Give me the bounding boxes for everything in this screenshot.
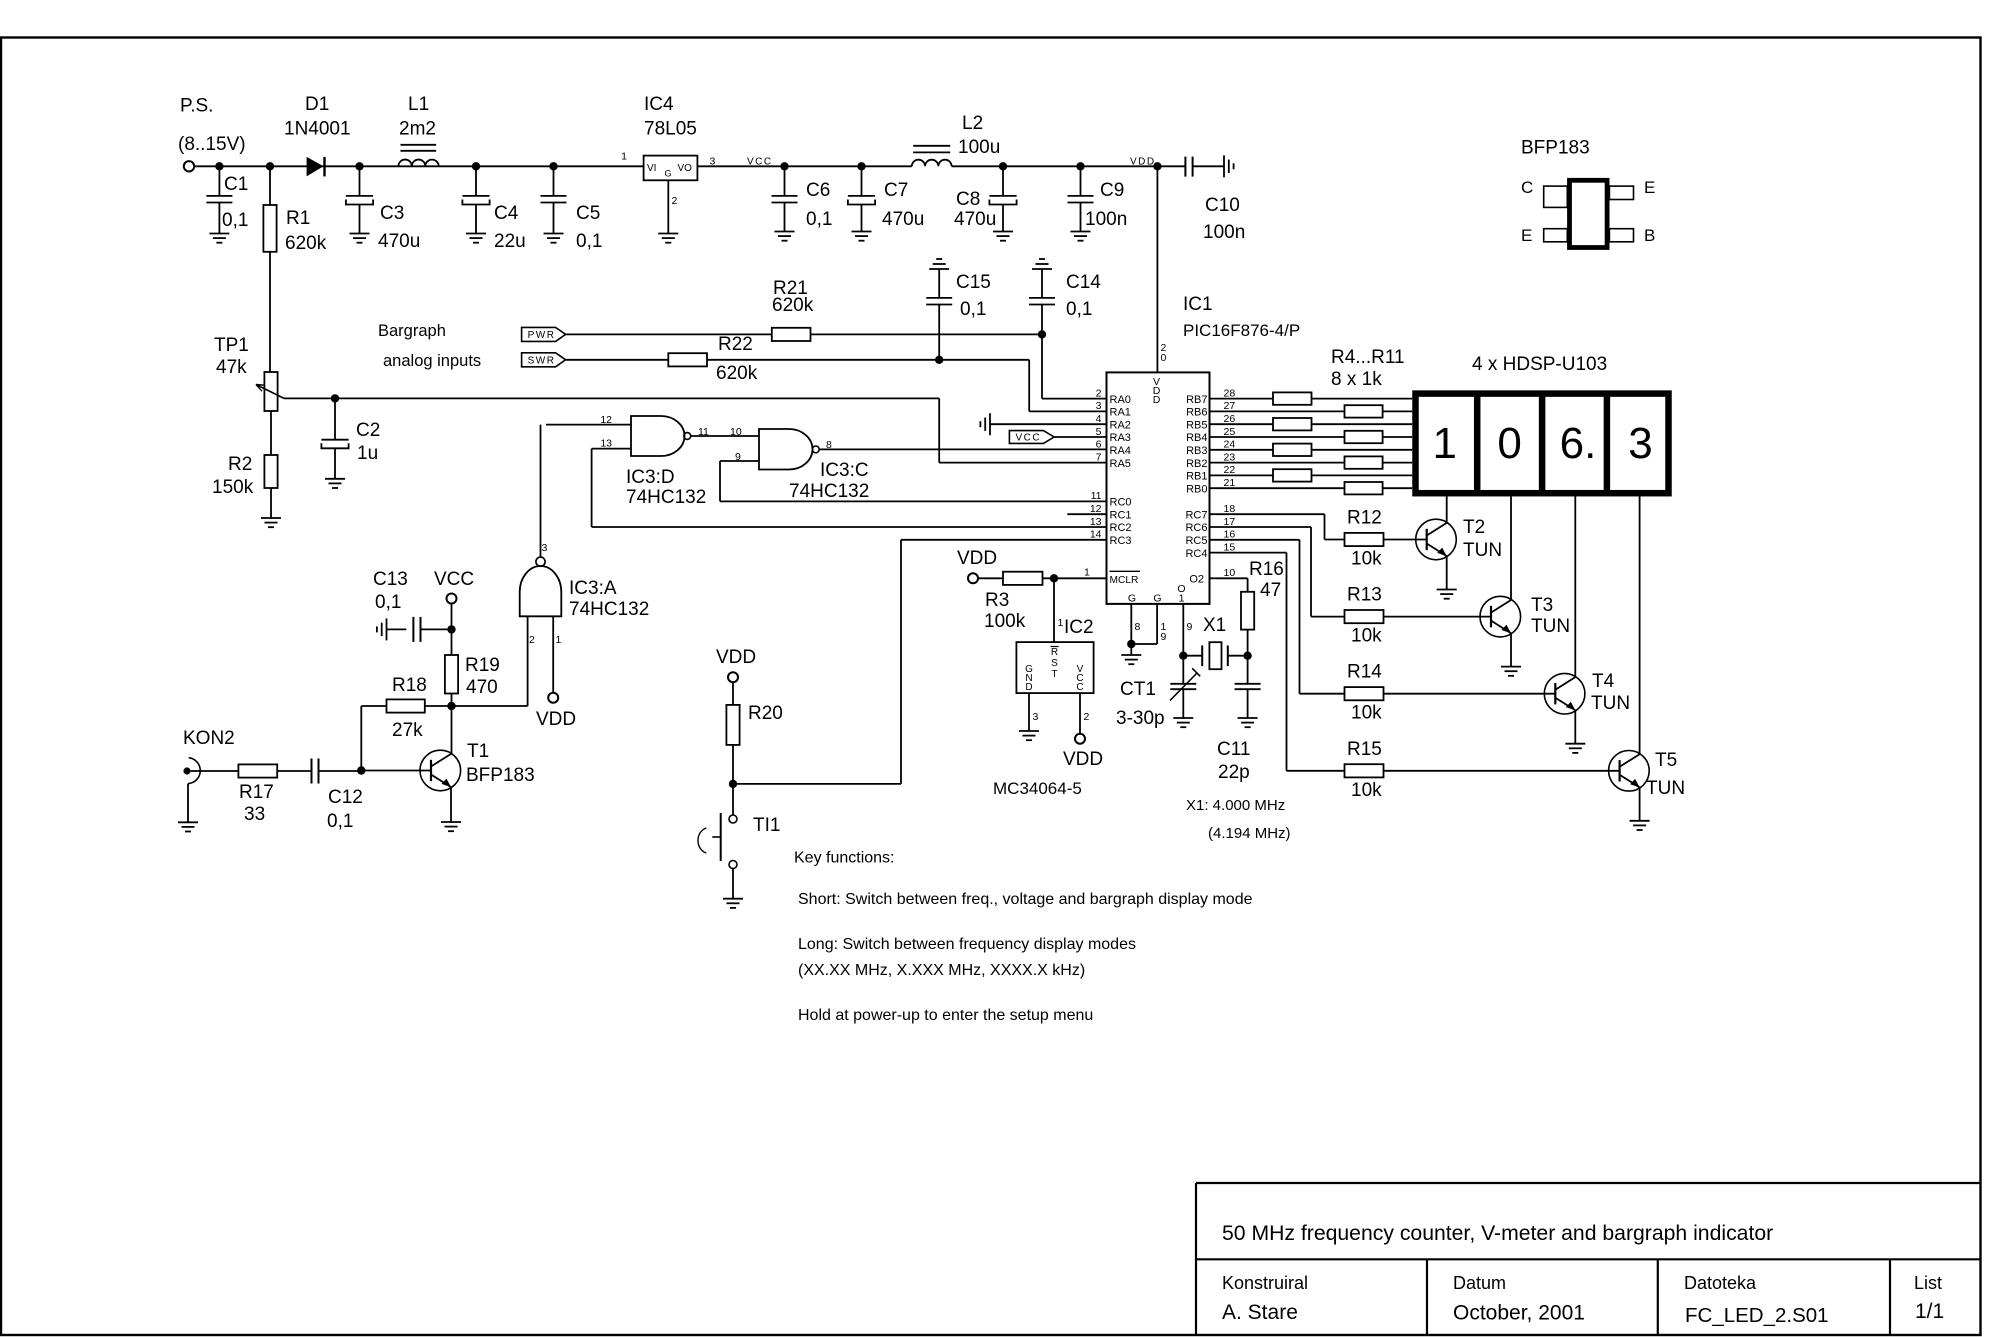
- svg-text:(4.194 MHz): (4.194 MHz): [1208, 825, 1291, 842]
- svg-text:2: 2: [1084, 711, 1090, 723]
- wire IC2 GND to ground: [1028, 693, 1030, 731]
- svg-text:VCC: VCC: [434, 569, 474, 590]
- svg-text:11: 11: [1091, 490, 1102, 502]
- inductor L2: [912, 160, 952, 167]
- svg-text:BFP183: BFP183: [466, 765, 535, 786]
- terminal VDD R20: [728, 672, 738, 682]
- pin tab B: [1609, 229, 1633, 242]
- ground T5: [1630, 820, 1650, 822]
- svg-text:VCC: VCC: [747, 156, 773, 167]
- pin tab E bottom: [1544, 229, 1568, 242]
- svg-text:RB0: RB0: [1186, 483, 1207, 495]
- svg-text:3: 3: [1096, 400, 1102, 412]
- capacitor C6: [784, 166, 786, 196]
- node T1 base: [357, 766, 365, 774]
- wire VDD rail: [952, 165, 1186, 167]
- svg-text:G: G: [1153, 593, 1161, 605]
- svg-text:C7: C7: [884, 180, 908, 201]
- transistor T3 TUN: [1480, 596, 1521, 637]
- svg-text:RB3: RB3: [1186, 445, 1207, 457]
- svg-text:R4...R11: R4...R11: [1331, 347, 1405, 368]
- svg-text:100n: 100n: [1085, 209, 1127, 230]
- wire RC pin to R13: [1210, 526, 1312, 528]
- wire MCLR node down to IC2: [1053, 578, 1055, 642]
- terminal VDD R3: [968, 573, 978, 583]
- svg-text:74HC132: 74HC132: [626, 487, 706, 508]
- resistor R11: [1345, 482, 1383, 494]
- pin 9 wire IC3:C: [720, 460, 759, 462]
- svg-text:VCC: VCC: [1016, 433, 1042, 444]
- svg-text:PWR: PWR: [528, 330, 556, 341]
- svg-text:74HC132: 74HC132: [569, 599, 649, 620]
- svg-text:12: 12: [1090, 503, 1102, 515]
- resistor R1: [269, 166, 271, 205]
- svg-text:TUN: TUN: [1646, 778, 1685, 799]
- resistor R7: [1345, 431, 1383, 443]
- wire G pin 19 down: [1156, 604, 1158, 644]
- svg-text:3: 3: [1033, 711, 1039, 723]
- svg-text:78L05: 78L05: [644, 119, 697, 140]
- svg-text:1N4001: 1N4001: [284, 119, 351, 140]
- resistor R5: [1345, 405, 1383, 417]
- svg-text:RB7: RB7: [1186, 394, 1207, 406]
- svg-text:Key functions:: Key functions:: [794, 850, 895, 867]
- svg-text:2: 2: [1096, 387, 1102, 399]
- capacitor C11: [1247, 656, 1249, 684]
- svg-text:VDD: VDD: [1130, 156, 1156, 167]
- ground C3: [350, 233, 370, 235]
- svg-text:1: 1: [1179, 593, 1185, 605]
- wire RB1 row: [1210, 474, 1413, 476]
- pin 3 output wire IC3:A up to IC3:D pin 12: [540, 425, 542, 557]
- wire RC pin to R14: [1210, 539, 1300, 541]
- transistor T2 TUN: [1416, 519, 1457, 560]
- potentiometer TP1: [264, 372, 277, 411]
- svg-text:4: 4: [1096, 413, 1102, 425]
- ground IC1 G: [1121, 654, 1141, 656]
- resistor R13: [1345, 610, 1384, 623]
- node R19 bottom: [447, 702, 455, 710]
- wire R17 to C12: [277, 770, 311, 772]
- svg-text:150k: 150k: [212, 477, 254, 498]
- svg-text:IC3:A: IC3:A: [569, 578, 617, 599]
- svg-text:3: 3: [542, 542, 548, 554]
- svg-text:470u: 470u: [954, 209, 996, 230]
- ground T2: [1437, 589, 1457, 591]
- led display HDSP-U103: [1416, 394, 1669, 494]
- wire TP1 wiper to RA5 line: [284, 397, 939, 399]
- svg-text:S: S: [1051, 658, 1058, 669]
- svg-text:23: 23: [1224, 451, 1236, 463]
- svg-text:VI: VI: [647, 163, 656, 174]
- wire RC3 to IC1 pin 14: [901, 539, 1107, 541]
- svg-text:27: 27: [1224, 400, 1236, 412]
- wire IC3:C pin9 to RC0: [719, 461, 721, 501]
- wire node to RC3 riser: [733, 783, 901, 785]
- svg-text:(XX.XX MHz, X.XXX MHz, XXXX.X: (XX.XX MHz, X.XXX MHz, XXXX.X kHz): [798, 962, 1085, 979]
- svg-text:C14: C14: [1066, 272, 1101, 293]
- svg-text:47: 47: [1260, 580, 1281, 601]
- svg-text:15: 15: [1224, 541, 1236, 553]
- node TI1: [729, 780, 737, 788]
- svg-text:50 MHz frequency counter, V-me: 50 MHz frequency counter, V-meter and ba…: [1222, 1222, 1773, 1245]
- terminal P.S. input: [184, 161, 194, 171]
- wire RA5 net down: [938, 398, 940, 462]
- svg-text:10: 10: [730, 426, 742, 438]
- resistor R17: [238, 764, 277, 777]
- wire SWR to R22: [566, 359, 669, 361]
- svg-text:TUN: TUN: [1531, 616, 1570, 637]
- svg-text:TUN: TUN: [1591, 693, 1630, 714]
- wire RB6 row: [1210, 410, 1413, 412]
- svg-text:9: 9: [735, 451, 741, 463]
- svg-text:0,1: 0,1: [1066, 299, 1092, 320]
- svg-text:Hold at power-up to enter the: Hold at power-up to enter the setup menu: [798, 1007, 1093, 1024]
- svg-text:X1: 4.000 MHz: X1: 4.000 MHz: [1186, 797, 1285, 814]
- svg-text:C6: C6: [806, 180, 830, 201]
- svg-text:1: 1: [1058, 617, 1064, 629]
- capacitor C8: [1002, 166, 1004, 196]
- svg-text:C13: C13: [373, 569, 408, 590]
- svg-text:16: 16: [1224, 529, 1236, 541]
- wire X1 to node right: [1228, 655, 1248, 657]
- ground C10: [1223, 155, 1225, 177]
- svg-text:C1: C1: [224, 174, 248, 195]
- svg-text:R1: R1: [286, 208, 310, 229]
- svg-text:RC7: RC7: [1185, 509, 1207, 521]
- terminal VDD IC2: [1075, 734, 1085, 744]
- net flag PWR: [522, 327, 566, 341]
- wire T4 emitter to ground: [1574, 710, 1576, 743]
- svg-text:C: C: [1521, 178, 1533, 197]
- inductor L1: [398, 160, 438, 167]
- wire T3 base: [1384, 616, 1492, 618]
- resistor R12: [1345, 533, 1384, 546]
- svg-text:10k: 10k: [1351, 780, 1382, 801]
- svg-text:D1: D1: [305, 94, 329, 115]
- svg-text:KON2: KON2: [183, 728, 235, 749]
- wire display digit 3 to T4 collector: [1574, 493, 1576, 677]
- svg-text:620k: 620k: [716, 363, 758, 384]
- node C6: [780, 162, 788, 170]
- resistor R4: [1273, 392, 1312, 404]
- wire TI1 to ground: [732, 869, 734, 899]
- node C7: [857, 162, 865, 170]
- svg-text:100n: 100n: [1203, 222, 1245, 243]
- svg-text:RC5: RC5: [1185, 535, 1207, 547]
- capacitor C5: [553, 166, 555, 196]
- wire T4 base: [1384, 693, 1556, 695]
- ground CT1: [1173, 717, 1193, 719]
- resistor R14: [1345, 687, 1384, 700]
- svg-text:FC_LED_2.S01: FC_LED_2.S01: [1685, 1304, 1829, 1327]
- svg-text:T: T: [1051, 669, 1057, 680]
- svg-text:T1: T1: [467, 741, 489, 762]
- nand gate IC3:C 74HC132: [759, 429, 812, 470]
- svg-text:R14: R14: [1347, 662, 1382, 683]
- wire RA2 ground: [990, 423, 1107, 425]
- resistor R19: [445, 655, 458, 694]
- wire R3 to MCLR: [1043, 577, 1107, 579]
- wire R20 to node: [732, 745, 734, 784]
- wire display digit 2 to T3 collector: [1510, 493, 1512, 600]
- node R1: [266, 162, 274, 170]
- pin 11 output wire IC3:D to IC3:C: [691, 435, 759, 437]
- svg-text:Konstruiral: Konstruiral: [1222, 1273, 1308, 1293]
- svg-text:CT1: CT1: [1120, 679, 1156, 700]
- resistor R2: [264, 455, 277, 488]
- node C9: [1076, 162, 1084, 170]
- wire O1 pin 9 down: [1182, 604, 1184, 656]
- wire R16 to node: [1247, 630, 1249, 656]
- svg-text:470u: 470u: [882, 209, 924, 230]
- ground C6: [775, 231, 795, 233]
- wire VCC down: [451, 604, 453, 656]
- node C8: [999, 162, 1007, 170]
- ground KON2: [178, 821, 198, 823]
- svg-text:O2: O2: [1189, 574, 1204, 586]
- svg-text:VDD: VDD: [957, 548, 997, 569]
- wire R22 to corner: [707, 359, 1029, 361]
- svg-text:VDD: VDD: [536, 709, 576, 730]
- capacitor C3: [359, 166, 361, 196]
- wire display digit 4 to T5 collector: [1639, 493, 1641, 754]
- node G pins: [1127, 640, 1135, 648]
- svg-text:L1: L1: [408, 94, 429, 115]
- svg-text:Long: Switch between frequency: Long: Switch between frequency display m…: [798, 936, 1136, 953]
- svg-text:VDD: VDD: [716, 647, 756, 668]
- svg-text:8: 8: [1135, 621, 1141, 633]
- wire R18 right to node: [425, 705, 452, 707]
- svg-text:2: 2: [672, 195, 678, 207]
- svg-text:10k: 10k: [1351, 626, 1382, 647]
- svg-text:D: D: [1025, 682, 1032, 693]
- capacitor C4: [475, 166, 477, 196]
- svg-text:12: 12: [600, 414, 612, 426]
- svg-text:5: 5: [1096, 426, 1102, 438]
- svg-text:RB2: RB2: [1186, 458, 1207, 470]
- svg-text:9: 9: [1161, 631, 1167, 643]
- ground R2: [261, 517, 281, 519]
- svg-text:G: G: [1128, 593, 1136, 605]
- node VDD to IC1: [1153, 162, 1161, 170]
- svg-text:RC1: RC1: [1110, 509, 1132, 521]
- svg-text:0,1: 0,1: [576, 231, 602, 252]
- svg-text:1: 1: [1432, 419, 1456, 468]
- svg-text:8 x 1k: 8 x 1k: [1331, 369, 1382, 390]
- wire RC pin to R12: [1210, 513, 1325, 515]
- pin tab C: [1544, 186, 1568, 207]
- wire VCC flag to RA3: [1054, 436, 1106, 438]
- title block frame: [1196, 1182, 1981, 1184]
- wire RB7 row: [1210, 398, 1413, 400]
- svg-text:Datum: Datum: [1453, 1273, 1506, 1293]
- svg-text:(8..15V): (8..15V): [178, 134, 246, 155]
- ground C2: [325, 478, 345, 480]
- svg-text:B: B: [1644, 226, 1655, 245]
- wire C12 to base node: [319, 770, 362, 772]
- svg-text:SWR: SWR: [528, 355, 556, 366]
- svg-text:C3: C3: [380, 203, 404, 224]
- svg-text:T3: T3: [1531, 595, 1553, 616]
- svg-text:MCLR: MCLR: [1110, 575, 1139, 586]
- capacitor C1: [218, 166, 220, 196]
- wire base node to T1: [361, 770, 431, 772]
- svg-text:RB1: RB1: [1186, 471, 1207, 483]
- transistor T1 BFP183: [420, 750, 461, 791]
- svg-text:6: 6: [1096, 439, 1102, 451]
- svg-text:Datoteka: Datoteka: [1684, 1273, 1757, 1293]
- node R22 C15: [935, 356, 943, 364]
- pin 8 output wire IC3:C to RA4: [819, 448, 1106, 450]
- wire T1 collector: [451, 706, 453, 754]
- wire T2 base: [1384, 539, 1427, 541]
- wire PWR to R21: [566, 333, 772, 335]
- capacitor C13: [421, 628, 452, 630]
- capacitor C15: [936, 258, 942, 260]
- node MCLR: [1050, 574, 1058, 582]
- svg-text:R22: R22: [718, 334, 753, 355]
- diode D1: [307, 157, 324, 177]
- resistor R16: [1241, 592, 1254, 630]
- pin tab E top: [1609, 186, 1633, 199]
- svg-text:C2: C2: [356, 420, 380, 441]
- wire TP1 to R2: [270, 411, 272, 455]
- svg-text:47k: 47k: [216, 357, 247, 378]
- wire IC2 VCC pin to VDD: [1079, 693, 1081, 734]
- pin 1 wire IC3:A to VDD: [552, 616, 554, 692]
- node C5: [549, 162, 557, 170]
- wire RA1 net down: [1028, 360, 1030, 412]
- svg-text:RB6: RB6: [1186, 407, 1207, 419]
- capacitor C7: [861, 166, 863, 196]
- wire input rail: [194, 165, 643, 167]
- svg-text:RC6: RC6: [1185, 522, 1207, 534]
- wire VDD to R3: [978, 577, 1003, 579]
- svg-text:2: 2: [529, 634, 535, 646]
- resistor R9: [1345, 456, 1383, 468]
- svg-text:2m2: 2m2: [399, 119, 436, 140]
- ground C5: [544, 233, 564, 235]
- svg-text:1: 1: [556, 634, 562, 646]
- wire G pin 8 down: [1130, 604, 1132, 644]
- svg-text:RB4: RB4: [1186, 432, 1207, 444]
- svg-text:IC3:D: IC3:D: [626, 467, 675, 488]
- wire R21 to node: [811, 333, 1043, 335]
- wire RA0 net down: [1041, 334, 1043, 398]
- svg-text:11: 11: [698, 426, 709, 438]
- svg-text:22u: 22u: [494, 231, 526, 252]
- ground IC2: [1019, 730, 1039, 732]
- svg-text:7: 7: [1096, 451, 1102, 463]
- svg-text:R3: R3: [985, 590, 1009, 611]
- svg-text:RB5: RB5: [1186, 419, 1207, 431]
- crystal X1: [1201, 645, 1203, 666]
- svg-text:R13: R13: [1347, 585, 1382, 606]
- svg-text:13: 13: [600, 438, 612, 450]
- svg-text:RA4: RA4: [1110, 445, 1131, 457]
- svg-text:T4: T4: [1592, 671, 1615, 692]
- nand gate IC3:A 74HC132: [520, 566, 562, 616]
- svg-text:R16: R16: [1249, 559, 1284, 580]
- svg-text:RC3: RC3: [1110, 535, 1132, 547]
- wire RB3 row: [1210, 449, 1413, 451]
- svg-text:C5: C5: [576, 203, 600, 224]
- svg-text:TUN: TUN: [1463, 540, 1502, 561]
- svg-text:9: 9: [1187, 621, 1193, 633]
- pin 12 RC1 stub: [1067, 513, 1106, 515]
- svg-text:C8: C8: [956, 189, 980, 210]
- resistor R15: [1345, 764, 1384, 777]
- ground C9: [1071, 231, 1091, 233]
- wire RA5 net to IC1 pin 7: [939, 462, 1106, 464]
- wire VDD down to IC1 pin 20: [1156, 166, 1158, 372]
- resistor R18: [387, 699, 425, 712]
- svg-text:0,1: 0,1: [222, 210, 248, 231]
- svg-text:C: C: [1076, 682, 1083, 693]
- svg-text:0,1: 0,1: [375, 592, 401, 613]
- svg-text:620k: 620k: [772, 295, 814, 316]
- node C2: [331, 394, 339, 402]
- push button TI1: [732, 784, 734, 815]
- svg-text:4 x HDSP-U103: 4 x HDSP-U103: [1472, 354, 1607, 375]
- net flag SWR: [522, 353, 566, 367]
- node C4: [472, 162, 480, 170]
- transistor T4 TUN: [1544, 673, 1585, 714]
- wire RC pin to R15: [1210, 552, 1287, 554]
- terminal VDD IC3:A pin1: [548, 693, 558, 703]
- svg-text:10: 10: [1224, 567, 1236, 579]
- svg-text:RA2: RA2: [1110, 419, 1131, 431]
- svg-text:1: 1: [1084, 567, 1090, 579]
- svg-text:R19: R19: [465, 655, 500, 676]
- capacitor C9: [1080, 166, 1082, 196]
- svg-text:25: 25: [1224, 426, 1236, 438]
- wire RB0 row: [1210, 487, 1413, 489]
- resistor R22: [668, 353, 707, 366]
- wire T3 emitter to ground: [1510, 633, 1512, 666]
- node C3: [355, 162, 363, 170]
- svg-text:24: 24: [1224, 439, 1236, 451]
- svg-text:33: 33: [244, 804, 265, 825]
- svg-text:analog inputs: analog inputs: [383, 352, 481, 370]
- resistor R10: [1273, 469, 1312, 481]
- node X1 left: [1179, 652, 1187, 660]
- svg-text:R17: R17: [239, 782, 274, 803]
- svg-text:R: R: [1051, 647, 1058, 658]
- terminal VCC T1 bias: [447, 594, 457, 604]
- wire VCC rail: [697, 165, 911, 167]
- svg-text:MC34064-5: MC34064-5: [993, 779, 1082, 798]
- svg-text:VO: VO: [678, 163, 693, 174]
- svg-text:C9: C9: [1100, 180, 1124, 201]
- node C1: [215, 162, 223, 170]
- ic IC1 PIC16F876-4/P: [1107, 372, 1210, 604]
- svg-text:R20: R20: [748, 703, 783, 724]
- svg-text:74HC132: 74HC132: [789, 481, 869, 502]
- svg-text:26: 26: [1224, 413, 1236, 425]
- node C13: [447, 625, 455, 633]
- svg-text:VDD: VDD: [1063, 749, 1103, 770]
- svg-text:470u: 470u: [378, 231, 420, 252]
- svg-text:Short: Switch between freq., v: Short: Switch between freq., voltage and…: [798, 891, 1253, 908]
- svg-text:E: E: [1644, 178, 1655, 197]
- capacitor C12: [311, 759, 313, 784]
- trimmer capacitor CT1: [1182, 656, 1184, 684]
- svg-text:14: 14: [1090, 529, 1102, 541]
- svg-text:0,1: 0,1: [327, 811, 353, 832]
- svg-text:G: G: [665, 169, 672, 179]
